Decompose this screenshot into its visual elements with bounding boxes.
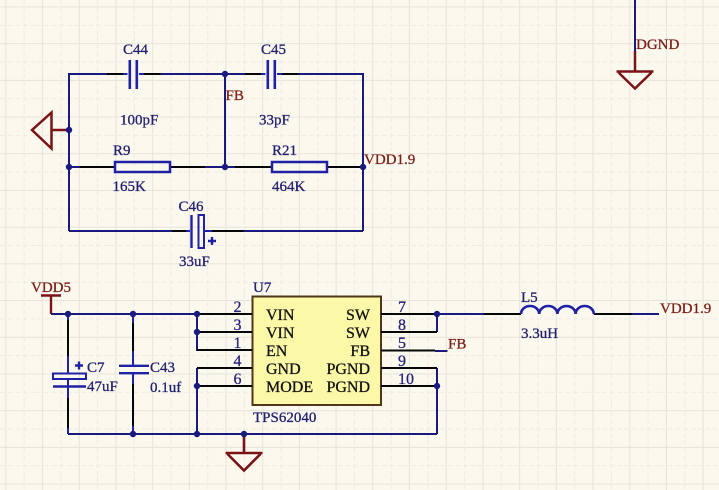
power port arrow (left) [32, 113, 69, 149]
capacitor C46 [172, 199, 244, 270]
wire to pins 3 and 1 [197, 314, 200, 350]
svg-text:33uF: 33uF [179, 254, 210, 270]
pin 9 PGND [326, 353, 437, 378]
pin 3 VIN [197, 317, 295, 342]
wire VDD5 rail [51, 313, 197, 315]
junction dot C43 top [130, 311, 136, 317]
inductor L5 [484, 290, 632, 342]
wire DGND vertical [634, 0, 636, 52]
svg-text:VIN: VIN [266, 325, 295, 342]
svg-text:FB: FB [226, 88, 244, 104]
wire middle row (R9/R21 row) [69, 166, 363, 168]
junction dot rail/pin2 [194, 311, 200, 317]
svg-text:VIN: VIN [266, 307, 295, 324]
pin 7 SW [346, 299, 437, 324]
junction dot SW output [434, 311, 440, 317]
wire to pins 4 and 6 [196, 368, 198, 434]
junction dot left-mid [66, 164, 72, 170]
svg-text:SW: SW [346, 307, 371, 324]
pin 1 EN [197, 335, 288, 360]
svg-text:10: 10 [398, 371, 414, 388]
wire right vertical of top loop [362, 73, 364, 231]
svg-text:C43: C43 [150, 360, 175, 376]
junction dot pin6 [194, 383, 200, 389]
svg-text:2: 2 [234, 299, 242, 316]
capacitor C7 [53, 314, 118, 434]
junction dot VDD1.9 [360, 164, 366, 170]
resistor R9 [80, 143, 205, 195]
svg-text:100pF: 100pF [120, 113, 158, 129]
svg-text:33pF: 33pF [259, 113, 290, 129]
svg-text:EN: EN [266, 343, 288, 360]
pin 4 GND [197, 353, 301, 378]
wire L5 to VDD1.9 [632, 313, 659, 315]
svg-text:R21: R21 [272, 143, 297, 159]
svg-text:4: 4 [234, 353, 242, 370]
wire right PGND vertical [436, 368, 438, 434]
svg-text:1: 1 [234, 335, 242, 352]
svg-text:PGND: PGND [326, 379, 370, 396]
svg-text:DGND: DGND [636, 37, 679, 53]
wire FB vertical [224, 74, 226, 167]
svg-text:165K: 165K [113, 179, 147, 195]
junction dot FB top [222, 71, 228, 77]
junction dot at arrow/wire [66, 127, 72, 133]
junction dot pin3 [194, 329, 200, 335]
svg-text:FB: FB [350, 343, 370, 360]
svg-text:7: 7 [398, 299, 406, 316]
svg-text:3.3uH: 3.3uH [521, 326, 558, 342]
capacitor C43 [119, 314, 181, 434]
resistor R21 [235, 143, 362, 195]
svg-text:5: 5 [398, 335, 406, 352]
pin 8 SW [346, 317, 437, 342]
svg-text:R9: R9 [113, 143, 131, 159]
svg-text:VDD1.9: VDD1.9 [660, 301, 711, 317]
capacitor C45 [245, 42, 299, 129]
junction dot pin10 [434, 383, 440, 389]
wire bottom of top loop [69, 230, 363, 232]
svg-text:U7: U7 [253, 280, 272, 296]
pin 10 PGND [326, 371, 437, 396]
junction dot bottom rail C43 [130, 431, 136, 437]
wire FB stub [435, 350, 448, 352]
wire left vertical of top loop [68, 73, 70, 231]
svg-text:C45: C45 [261, 42, 286, 58]
wire SW output to L5 [437, 313, 484, 315]
svg-text:8: 8 [398, 317, 406, 334]
svg-text:9: 9 [398, 353, 406, 370]
junction dot ground stem [241, 431, 247, 437]
wire top-left loop top segment [69, 73, 363, 75]
svg-text:GND: GND [266, 361, 301, 378]
svg-text:FB: FB [448, 337, 466, 353]
svg-text:MODE: MODE [266, 379, 313, 396]
power port VDD5 [31, 280, 71, 314]
svg-text:6: 6 [234, 371, 242, 388]
svg-text:L5: L5 [521, 290, 538, 306]
svg-text:TPS62040: TPS62040 [253, 410, 316, 426]
junction dot FB mid [222, 164, 228, 170]
pin 2 VIN [197, 299, 295, 324]
pin 5 FB [350, 335, 435, 360]
ground symbol DGND [617, 51, 654, 89]
svg-text:47uF: 47uF [87, 379, 118, 395]
svg-text:0.1uf: 0.1uf [150, 380, 181, 396]
svg-text:464K: 464K [272, 179, 306, 195]
junction dot bottom rail pins [194, 431, 200, 437]
svg-text:C44: C44 [123, 42, 149, 58]
ground symbol bottom [226, 434, 263, 471]
capacitor C44 [107, 42, 161, 129]
junction dot C7 top [65, 311, 71, 317]
op-amp U7 body (TPS62040) [253, 280, 382, 426]
svg-text:C46: C46 [179, 199, 205, 215]
pin 6 MODE [197, 371, 313, 396]
svg-text:C7: C7 [87, 360, 105, 376]
svg-text:VDD5: VDD5 [31, 280, 71, 296]
svg-text:3: 3 [234, 317, 242, 334]
svg-text:SW: SW [346, 325, 371, 342]
svg-text:VDD1.9: VDD1.9 [364, 152, 415, 168]
wire bottom ground rail [68, 433, 437, 435]
svg-text:PGND: PGND [326, 361, 370, 378]
wire SW pins vertical [436, 314, 438, 332]
